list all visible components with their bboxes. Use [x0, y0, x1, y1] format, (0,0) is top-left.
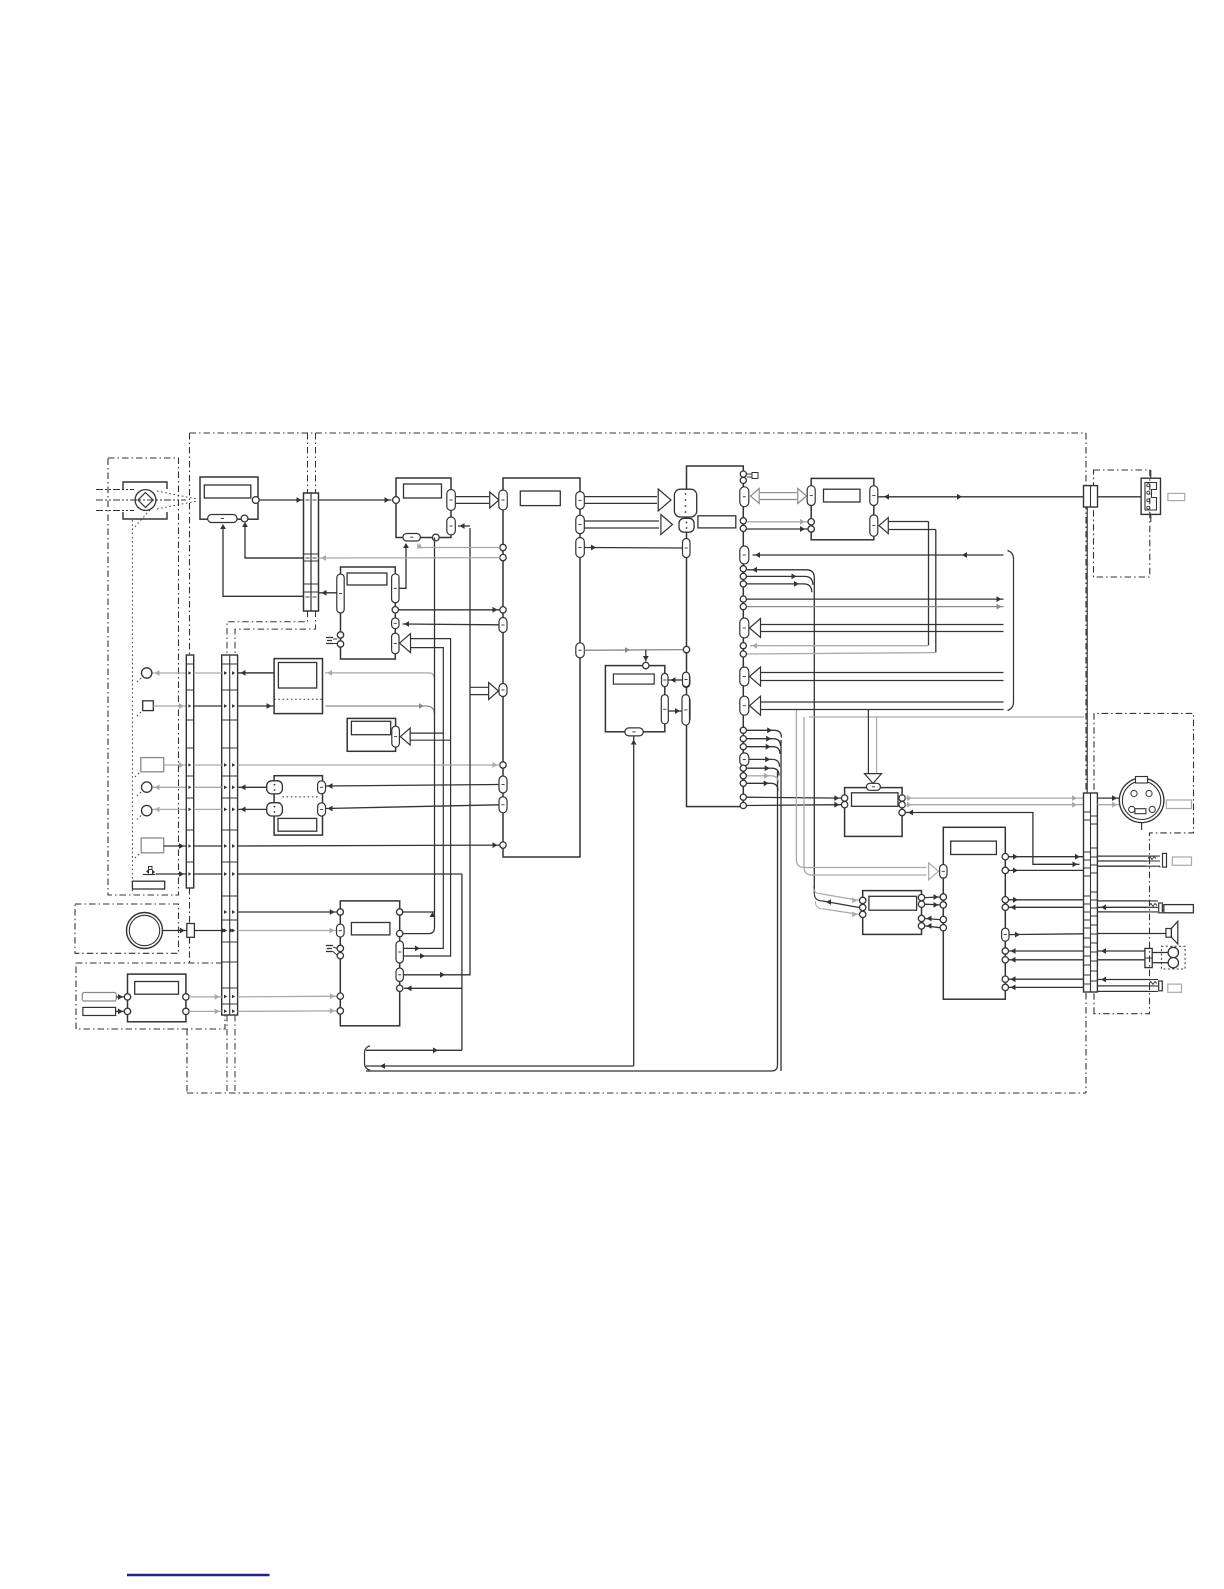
dotted divider inside sensor block: [131, 520, 133, 894]
syscon label rect: [698, 516, 736, 528]
mic label rect: [278, 818, 317, 831]
sensor switch square: [143, 701, 154, 711]
wire sensor6: [164, 845, 186, 847]
AV jack 3: [1148, 980, 1158, 992]
power left circles: [124, 994, 130, 1000]
sensor photo-diode 1: [142, 668, 152, 678]
hollow bus B into syscon 676: [758, 672, 1004, 674]
LCD screen rect: [278, 663, 316, 689]
battery contact circles: [1168, 947, 1178, 957]
wire timing gen to vp circle: [399, 609, 500, 611]
drum motor: [127, 913, 163, 949]
power input bar gray: [82, 993, 116, 1002]
dsp right stadium y975: [396, 968, 403, 982]
row y870: [1009, 869, 1084, 871]
wires to S-video: [1097, 797, 1119, 799]
battery contacts dotted box: [1161, 946, 1185, 969]
audio amp top stadium: [866, 783, 880, 790]
wire DC jack stubs: [1150, 470, 1152, 478]
syscon left stadium y680: [683, 674, 690, 688]
power input bar dark: [83, 1007, 116, 1015]
sensor module gray rect: [141, 758, 164, 772]
AV right circles y951 y960: [1002, 948, 1008, 954]
wire audio out to DC connector: [878, 496, 1083, 498]
power right circles: [183, 994, 189, 1000]
motor connector: [187, 924, 195, 938]
vp left stadium y690: [499, 684, 507, 697]
camera process input circle: [393, 497, 400, 504]
DC jack inner contour: [1145, 483, 1157, 511]
dash-dot boundary: camera block to video block (double line): [307, 433, 309, 496]
AV right circle y870: [1002, 867, 1008, 873]
dash-dot border: power block: [76, 963, 225, 1029]
lens element circle: [135, 490, 156, 511]
wire LCD video feed gray: [325, 672, 429, 674]
camera process label rect: [404, 484, 442, 498]
AV right circle y857: [1002, 854, 1008, 860]
hollow bus vp to syscon connector A: [585, 496, 658, 498]
S-video key notch: [1136, 777, 1148, 784]
jack2 label dark: [1164, 905, 1194, 913]
wires to jack2: [1097, 900, 1148, 902]
light ray lines (dash-dot-dot): [96, 489, 134, 491]
wires converter to AV driver: [925, 896, 940, 899]
S-video label gray: [1166, 800, 1191, 809]
dsp right circle y912: [397, 909, 403, 915]
AV right stadium y934: [1002, 928, 1009, 941]
wire video out via 1033: [905, 813, 1079, 865]
wire busB to dsp y912: [238, 911, 337, 913]
syscon right stadium y555: [740, 546, 749, 564]
mic right stadium upper: [318, 781, 326, 794]
dash-dot border: lens and sensor block: [108, 458, 179, 895]
wire busB to dsp power upper: [238, 995, 337, 998]
servo DSP label rect: [351, 923, 390, 935]
audio right stadium upper: [870, 486, 878, 506]
character generator box: [605, 666, 664, 732]
row y979: [1009, 978, 1084, 980]
wire dsp to vert434 y912: [403, 911, 435, 913]
syscon left rounded connector A: [674, 489, 696, 517]
dsp right circle y988: [397, 985, 403, 991]
video processor label rect: [520, 491, 560, 506]
row 547 gray wire: [418, 547, 500, 549]
dash-dot border: DC-in block: [1094, 470, 1150, 577]
wire audio amp out1: [905, 797, 1083, 799]
S-video jack body: [1119, 778, 1164, 823]
wire syscon to audio dark: [747, 528, 808, 530]
timing gen bottom circles: [337, 632, 343, 638]
wire busB to dsp stadium gray: [238, 930, 337, 932]
timing gen right circle: [392, 607, 398, 613]
EVF driver box: [347, 718, 395, 751]
wire bus to LCD lower: [239, 705, 274, 707]
wire LCD to connector dark: [239, 672, 275, 674]
EVF driver right stadium: [392, 726, 400, 747]
syscon right circles y599 y607: [740, 596, 746, 602]
syscon hook wires top (merge to bundle): [747, 569, 807, 571]
row 646 wire: [750, 645, 928, 647]
jack3 label gray: [1168, 984, 1182, 992]
syscon right circles y730-747: [740, 727, 746, 733]
bundle vertical to bottom return: [780, 740, 782, 1071]
wires to battery block: [1097, 950, 1145, 952]
AV left stadium: [940, 865, 947, 879]
row 555 wire: [753, 554, 1004, 556]
wire motor to connector: [163, 930, 187, 932]
row y900: [1009, 899, 1084, 901]
LCD panel box: [274, 659, 322, 714]
mic block box: [274, 776, 322, 835]
row 706 segments: [194, 705, 222, 707]
hollow arrow into AV driver stadium gray: [795, 710, 797, 860]
AV driver label rect: [951, 841, 997, 854]
hollow bus A into syscon 628: [758, 624, 1004, 626]
cable bundle bracket bottom-left: [365, 1046, 371, 1071]
video jack 2: [1148, 901, 1158, 912]
servo DSP box: [340, 901, 399, 1026]
wires to jack3: [1097, 979, 1148, 981]
row 599 wire: [747, 598, 1004, 600]
hollow arrow down into audio amp: [867, 710, 869, 775]
row y934: [1009, 933, 1083, 936]
sensor photo-diode 3: [142, 805, 152, 815]
power board box: [128, 974, 186, 1022]
vp left stadium y805: [499, 797, 507, 813]
wire connector to DC jack: [1098, 496, 1142, 498]
wire vp to timing gen mid: [403, 623, 500, 626]
flex connector B: [222, 655, 238, 1015]
vert 935.8: [935, 530, 937, 653]
syscon left stadium y548: [683, 539, 691, 558]
wire timing gen to camera process: [399, 544, 406, 588]
wire dsp circle988 to bracket: [404, 987, 462, 989]
syscon bundle vertical: [813, 578, 815, 893]
wire syscon to audio amp direct 1: [747, 796, 842, 799]
LCD dotted divider: [274, 698, 322, 700]
lens element diamond: [138, 493, 153, 508]
wire power to busB upper: [189, 996, 222, 998]
wire busB to dsp power lower: [238, 1010, 337, 1013]
char gen bottom stadium: [625, 728, 644, 736]
mic capsule lower: [267, 803, 283, 816]
wire syscon to audio gray: [747, 521, 808, 523]
lens convergence dotted lines: [157, 491, 197, 499]
dash-dot border: main board right edge: [1085, 433, 1087, 1093]
row 846 segments: [194, 845, 222, 847]
wire syscon to audio amp direct 2: [747, 804, 842, 807]
wire sensor5: [153, 808, 187, 810]
switch bar rect: [132, 881, 164, 889]
wire DC power down to AV connector: [1086, 507, 1088, 793]
wire feedback to CCD circle: [245, 524, 304, 558]
interconnect stadium small: [683, 672, 690, 687]
converter label rect: [869, 896, 917, 910]
timing gen right stadium low: [392, 633, 399, 654]
video processor box: [503, 478, 580, 857]
vp right stadium y547: [576, 538, 585, 558]
wire dsp stadium975 to camera process: [404, 528, 470, 975]
wire mic upper to vp: [326, 785, 500, 787]
syscon right circles y521 y528: [740, 518, 746, 524]
row y907: [1009, 906, 1084, 908]
converter right circles: [918, 894, 924, 900]
syscon box: [687, 466, 744, 807]
camera process bottom circle: [432, 534, 439, 541]
CCD bottom pin stadium: [208, 515, 238, 523]
wire bars to power: [116, 996, 124, 998]
row 557 gray wire: [319, 557, 500, 559]
syscon right circles y569-584: [740, 566, 746, 572]
sensor module gray rect 2: [141, 838, 164, 853]
hollow bus vp to syscon connector B: [585, 520, 660, 522]
row 650 wire: [584, 649, 683, 652]
CCD block box: [200, 477, 258, 519]
wire sensor2: [153, 705, 186, 707]
hollow arrow into EVF driver: [408, 732, 444, 734]
sensor photo-diode 2: [142, 782, 152, 792]
wire char gen upper pair: [669, 679, 683, 681]
dash-dot border: AV jack block: [1094, 713, 1194, 1013]
audio amp label rect: [852, 793, 899, 807]
DC label box gray: [1168, 493, 1185, 500]
wire LCD out to dsp vertical: [326, 705, 427, 707]
interconnect stadium large: [682, 695, 690, 726]
row y857: [1009, 856, 1084, 858]
syscon right circles y474 y481: [740, 471, 746, 477]
char gen right stadium large: [661, 695, 668, 724]
wire connector to busB: [194, 930, 221, 932]
vp left stadium y784: [499, 776, 507, 793]
audio amp right circles: [899, 795, 905, 801]
vp left circles y547 y557: [500, 544, 506, 550]
timing gen right stadium mid: [392, 618, 399, 629]
syscon right stadium y676: [740, 667, 749, 686]
row 874 segments: [194, 873, 222, 875]
wire feedback to CCD stadium: [223, 526, 304, 596]
vp left circle y610: [500, 607, 506, 613]
dsp right circle y934: [397, 930, 403, 936]
vp right stadium y500: [576, 492, 585, 510]
AV left circles pair1: [940, 894, 946, 900]
camera process bottom stadium: [403, 534, 421, 542]
board connector CN (camera to video bus): [304, 493, 319, 611]
crystal X2 at timing gen: [326, 637, 333, 639]
syscon left stadium y709: [683, 697, 691, 723]
audio left stadium: [807, 486, 815, 506]
CCD output pin circle: [252, 497, 259, 504]
AV right circles y900 y907: [1002, 897, 1008, 903]
dash-dot border: main board left edge segments: [189, 433, 191, 655]
wire bus to timing gen: [319, 592, 337, 594]
S-video bottom key: [1135, 809, 1146, 814]
hollow arrow aux into vp stadium y690: [470, 686, 489, 688]
row 765 segments: [194, 764, 222, 766]
wire power to busB lower: [189, 1010, 222, 1012]
vert 928.5: [928, 522, 930, 646]
audio right stadium lower: [870, 515, 878, 536]
syscon right circles y768-783: [740, 765, 746, 771]
audio amp left circles: [841, 795, 847, 801]
hollow double arrow syscon-audio: [760, 493, 797, 500]
wires to jack1: [1097, 855, 1146, 857]
hollow bus C into syscon 706: [758, 701, 1004, 703]
power label rect: [135, 982, 179, 995]
DC jack outer: [1141, 478, 1160, 514]
row y987: [1009, 986, 1084, 988]
syscon left rounded connector B: [679, 518, 694, 532]
wire audio amp out2: [905, 804, 1083, 806]
audio left circles: [808, 519, 814, 525]
S-video pins: [1131, 790, 1137, 796]
row 787 segments: [194, 786, 222, 788]
row 809 segments: [194, 808, 222, 810]
syscon right stadium y628: [740, 618, 749, 638]
return wire C: [366, 1070, 772, 1072]
vp left circle y765: [500, 762, 506, 768]
wire sensor3: [164, 764, 186, 766]
wire sensor4: [153, 786, 187, 788]
mic right stadium lower: [318, 803, 326, 816]
dsp left stadium y930: [337, 924, 345, 937]
crystal X1 at syscon: [752, 473, 758, 479]
CCD bottom pin circle: [241, 515, 248, 522]
lens bracket top: [123, 482, 167, 489]
hollow arrow into audio stadium: [888, 521, 929, 523]
hollow wire timing gen to servo DSP: [404, 639, 451, 956]
mic dotted divider: [282, 796, 317, 798]
wire mic lower to bus: [239, 808, 267, 810]
camera process right stadium upper: [447, 490, 456, 511]
converter left circles: [860, 897, 866, 903]
wire char gen lower pair: [669, 710, 683, 712]
vp right stadium y650: [576, 643, 585, 658]
return wire A: [366, 1049, 462, 1051]
speaker: [1166, 929, 1172, 938]
dash-dot border: drum motor block: [75, 904, 179, 953]
row 547 syscon wire: [584, 547, 682, 550]
video in stadium: [499, 490, 508, 510]
phones jack 1: [1146, 856, 1160, 867]
wire mode switch: [156, 873, 187, 875]
audio amp box: [845, 788, 903, 837]
vp right stadium y524: [576, 515, 585, 534]
hollow arrow camera process to video processor: [456, 496, 489, 498]
syscon left circle y650: [683, 646, 689, 652]
vp left circle y845: [500, 842, 506, 848]
timing gen label rect: [347, 573, 387, 585]
syscon right stadium y706: [740, 696, 749, 715]
AV driver box: [943, 827, 1005, 999]
flex connector A: [186, 655, 193, 888]
crystal X3 at dsp: [326, 945, 333, 947]
timing gen right stadium: [392, 574, 399, 603]
row 606 wire: [747, 606, 1004, 608]
cable bundle bracket right: [1008, 551, 1014, 711]
dsp left circles power: [337, 993, 343, 999]
AV right circles y979 y987: [1002, 976, 1008, 982]
AV flex connector: [1084, 793, 1098, 992]
syscon right circles y646 y654: [740, 643, 746, 649]
wire to speaker: [1097, 933, 1166, 935]
EVF driver label rect: [351, 721, 390, 734]
row 654 wire: [747, 653, 936, 654]
converter box: [863, 891, 922, 935]
row y960: [1009, 959, 1084, 961]
mode switch icon: [143, 874, 155, 876]
gray row 717: [809, 716, 1084, 718]
dash-dot border: main board bottom edge: [187, 1092, 1086, 1094]
row 673 segments: [194, 672, 222, 674]
audio label rect: [824, 489, 861, 502]
dsp left circles crystal: [337, 945, 343, 951]
char gen top circle: [643, 662, 649, 668]
battery terminal block: [1145, 948, 1152, 967]
timing generator box: [341, 567, 396, 659]
camera process right stadium lower: [447, 517, 456, 535]
syscon right stadium y759: [740, 753, 749, 766]
dsp left circle y912: [337, 909, 343, 915]
S-video stub: [1141, 823, 1143, 830]
char gen label rect: [613, 674, 654, 684]
wire bus to camera process: [319, 499, 392, 501]
row y951: [1009, 950, 1084, 952]
syscon right circles y797 y805: [740, 794, 746, 800]
mic capsule upper: [267, 781, 283, 794]
dsp right stadium y952: [396, 941, 403, 963]
lens bracket bottom: [123, 512, 167, 519]
board connector to DC block: [1084, 486, 1098, 507]
wire mic lower to vp: [326, 805, 500, 809]
return wire B: [366, 1065, 634, 1067]
CCD block label rect: [204, 485, 251, 498]
DC jack pins: [1147, 484, 1150, 487]
syscon hook wires bottom (nested curves): [747, 729, 774, 731]
vertical camera-process to dsp: [434, 538, 436, 928]
bundle split to converter rows: [813, 886, 821, 894]
wire sensor1: [153, 672, 187, 674]
vp left stadium y625: [499, 618, 507, 633]
audio process box: [811, 478, 874, 539]
syscon right stadium y497: [740, 487, 749, 507]
AV left circles pair2: [940, 916, 946, 922]
timing gen left stadium: [337, 574, 344, 613]
camera signal process box: [396, 478, 451, 538]
blue underline rule: [127, 1574, 270, 1577]
jack1 label gray: [1172, 857, 1191, 865]
wire mic upper to bus: [239, 786, 267, 788]
char gen right stadium small: [662, 673, 669, 686]
dash-dot border: main board top edge: [190, 432, 1087, 434]
wire CCD video out to camera bus: [259, 499, 303, 501]
